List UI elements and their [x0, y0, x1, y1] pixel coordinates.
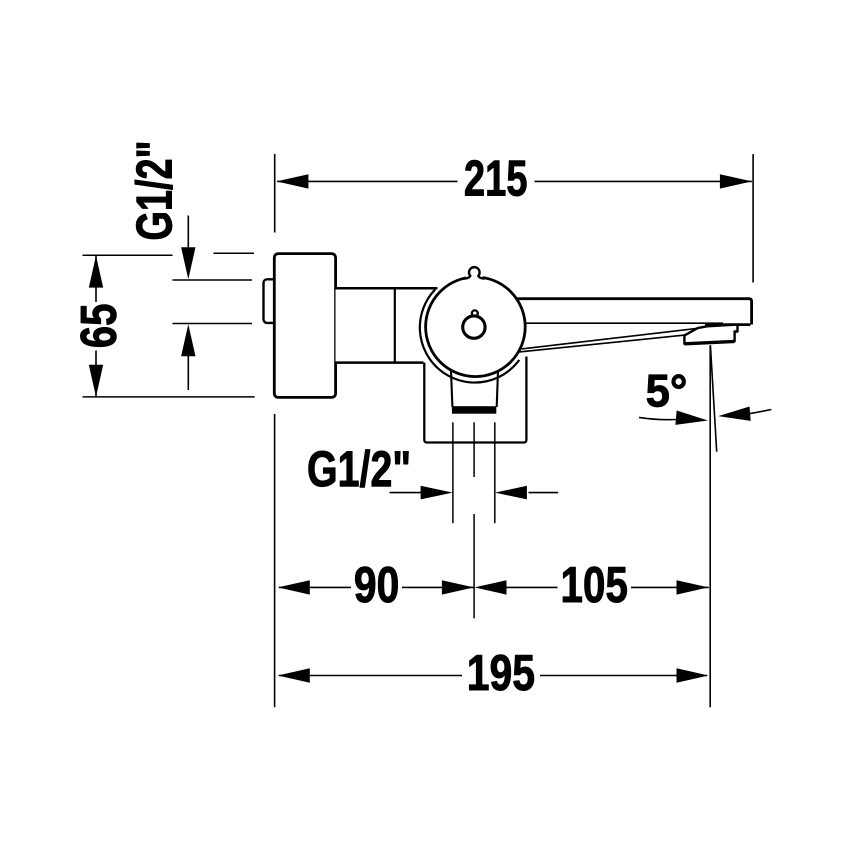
dim 215 line right segment: [535, 180, 752, 182]
aerator bottom thick edge: [685, 341, 735, 343]
dim 215 left arrowhead: [276, 174, 308, 188]
spout top and right edge: [517, 299, 752, 325]
dim 195 line left segment: [279, 675, 462, 677]
G1/2 bottom dim left arrowhead: [421, 486, 453, 500]
G1/2 bottom dim left tail: [390, 492, 422, 494]
G1/2 left label: [135, 143, 173, 239]
lower left extension line: [274, 414, 276, 707]
angle left arrowhead: [675, 411, 708, 428]
dim 215 left extension line: [274, 154, 276, 233]
spout bar fill: [498, 298, 753, 326]
G1/2 left dim upper arrowhead: [181, 247, 195, 279]
G1/2 connector below handle: [451, 365, 498, 407]
dim 105 text: [563, 567, 627, 603]
body bar top edge: [336, 287, 438, 290]
G1/2 bottom label: [309, 450, 409, 488]
wall flange G1/2 side connector: [264, 279, 280, 323]
dim 65 line upper segment: [95, 256, 97, 302]
dim 90 right arrowhead: [442, 580, 474, 594]
dim 65 line lower segment: [95, 351, 97, 397]
dim 215 text: [465, 160, 526, 196]
dim 105 left arrowhead: [475, 580, 507, 594]
G1/2 bottom dim right tail: [529, 492, 559, 494]
spout bottom thin edge: [517, 322, 724, 324]
dim 215 right arrowhead: [720, 174, 752, 188]
connector bottom tick: [172, 323, 252, 325]
dim 65 down arrowhead: [89, 365, 103, 397]
dim 90 left arrowhead: [278, 580, 310, 594]
connection center line middle lower: [473, 514, 475, 618]
aerator tip: [684, 325, 737, 344]
spout underside lower taper line: [519, 335, 684, 352]
dim 195 left arrowhead: [278, 668, 310, 682]
angle arc right tail: [749, 410, 771, 414]
body bar bottom edge: [336, 361, 424, 364]
connector black base bar: [452, 406, 496, 414]
spout bottom right thick edge: [705, 323, 750, 326]
connection center line right: [494, 422, 496, 523]
angle 5 deg text: [647, 374, 686, 406]
dim 105 line right segment: [631, 586, 709, 588]
spout underside upper taper line: [522, 328, 698, 349]
dim 65 up arrowhead: [89, 256, 103, 288]
G1/2 bottom dim right arrowhead: [495, 486, 527, 500]
wall flange: [274, 254, 335, 398]
dim 195 text: [469, 655, 534, 691]
handle top knob: [466, 275, 483, 281]
dim 90 line left segment: [279, 586, 351, 588]
dim 105 line left segment: [506, 586, 558, 588]
dim 90 text: [355, 567, 397, 603]
dim 195 right arrowhead: [677, 668, 709, 682]
dim 65 text: [81, 305, 117, 347]
dim 215 line left segment: [277, 180, 457, 182]
connector top tick: [172, 279, 252, 281]
angle arc left tail: [639, 417, 676, 419]
G1/2 left dim lower arrow line: [187, 355, 189, 390]
handle center nub: [472, 310, 478, 316]
connection center line left: [452, 422, 454, 523]
water stream 5 deg line: [710, 345, 716, 451]
lower body block: [424, 357, 526, 443]
G1/2 left dim lower arrowhead: [181, 324, 195, 356]
flange top tick: [214, 252, 255, 254]
dim 65 top tick: [83, 254, 173, 256]
escutcheon ring behind handle: [420, 289, 519, 382]
connection center line middle upper: [473, 422, 475, 477]
dim 90 line right segment: [402, 586, 474, 588]
water stream vertical reference line: [709, 345, 711, 707]
connector right edge: [497, 365, 499, 407]
handle center blob: [463, 316, 485, 338]
dim 65 bottom tick: [83, 396, 255, 398]
body bar divider: [394, 288, 396, 362]
G1/2 left dim upper arrow line: [187, 216, 189, 249]
handle circle: [426, 277, 526, 377]
body bar between flange and handle: [336, 288, 446, 362]
dim 215 right extension line: [752, 154, 754, 282]
connector left edge: [451, 365, 453, 407]
dim 195 line right segment: [540, 675, 707, 677]
dim 105 right arrowhead: [677, 580, 709, 594]
angle right arrowhead: [718, 406, 751, 423]
